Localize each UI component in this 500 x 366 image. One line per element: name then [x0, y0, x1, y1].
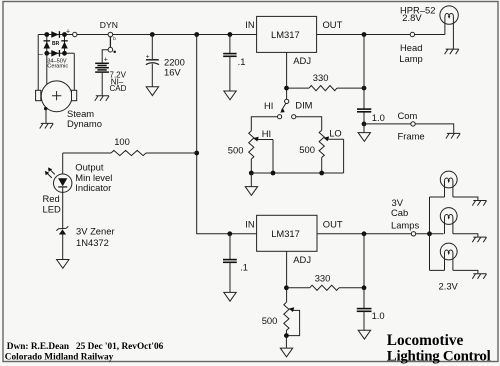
capacitor C4 .1 lead (lower) [229, 234, 231, 259]
wire: DS3 right lead [453, 234, 478, 237]
label e (lower pole) [114, 51, 116, 53]
LED D1 circle [54, 174, 72, 192]
ground: signal ground below C5 [358, 330, 370, 339]
svg-text:+: + [104, 57, 108, 64]
svg-text:Locomotive: Locomotive [387, 332, 464, 349]
svg-text:Colorado Midland Railway: Colorado Midland Railway [5, 353, 114, 363]
wire: feed down to lower LM317 IN [197, 35, 257, 234]
svg-text:DIM: DIM [295, 100, 312, 111]
terminal: head lamp feed [410, 32, 414, 36]
node: rail junction at 2200 cap [150, 32, 155, 37]
wire: DYN lower pole to battery [102, 50, 108, 63]
potentiometer R6 500 (lower) [284, 302, 289, 330]
chassis ground under dynamo [40, 123, 54, 128]
wire: bridge left column [46, 35, 48, 54]
bridge rectifier BR diode right (points up) [61, 40, 68, 48]
wire: U2 OUT rail to cab lamps [317, 233, 444, 235]
svg-text:HI: HI [262, 128, 271, 139]
svg-text:3V Zener: 3V Zener [76, 225, 115, 236]
lamp DS2 cab lamp top [440, 171, 457, 188]
node: dynamo case ground tap [44, 107, 47, 110]
wire: cab lamp bus vertical [429, 197, 431, 270]
svg-text:Dwn: R.E.Dean 25 Dec '01, Re: Dwn: R.E.Dean 25 Dec '01, RevOct'06 [7, 342, 164, 352]
wire: R6 bottom [285, 331, 287, 348]
lamp DS1 filament and leads [445, 13, 454, 48]
wire: bridge right column [64, 35, 66, 54]
wire C2 to ground [229, 57, 231, 91]
chassis ground for head lamp [445, 49, 459, 54]
chassis ground DS2 [472, 201, 486, 206]
svg-text:b: b [113, 36, 116, 41]
svg-text:Output: Output [75, 161, 104, 172]
svg-text:DYN: DYN [100, 20, 118, 30]
node: ADJ junction lower [284, 285, 289, 290]
LED emission arrows [47, 170, 55, 178]
bridge rectifier BR diode left (points up) [44, 40, 51, 48]
svg-text:1N4372: 1N4372 [76, 237, 109, 248]
wire C1 to ground [151, 64, 153, 87]
zener D2 3V 1N4372 [59, 229, 66, 234]
ground: signal ground below R6 [280, 348, 292, 357]
node: ADJ junction top [284, 86, 289, 91]
R6 wiper [286, 310, 299, 335]
node: common junction below C3 [362, 122, 367, 127]
svg-text:330: 330 [313, 72, 329, 83]
svg-text:IN: IN [245, 218, 254, 229]
svg-text:500: 500 [228, 145, 244, 156]
svg-text:LO: LO [329, 128, 342, 139]
chassis ground DS3 [472, 237, 486, 242]
wire: DS4 leads [430, 270, 478, 273]
wire: LED to zener [62, 192, 64, 229]
capacitor C1 2200uF lead [151, 35, 153, 60]
svg-text:.1: .1 [240, 261, 248, 272]
wire: battery to ground [101, 73, 103, 96]
svg-text:+: + [146, 54, 150, 61]
switch S1 throw DIM [292, 115, 296, 119]
switch DYN: link between poles [109, 37, 111, 48]
svg-text:Com: Com [398, 110, 418, 121]
node: OUT junction top [362, 32, 367, 37]
wire: bridge to right brush [73, 53, 75, 90]
steam dynamo body circle [41, 81, 72, 112]
svg-text:Lighting Control: Lighting Control [387, 348, 491, 364]
wire: DIM throw to LO pot [296, 117, 322, 131]
dynamo + mark [52, 91, 61, 100]
capacitor C4 plates [223, 260, 237, 263]
svg-text:2.8V: 2.8V [402, 12, 422, 23]
lamp DS1 head lamp HPR-52 [440, 6, 458, 24]
wire: 100 down to LED [62, 153, 64, 174]
svg-text:1.0: 1.0 [372, 112, 385, 123]
dynamo left brush [36, 90, 41, 100]
switch DYN lower pole [108, 47, 113, 52]
capacitor C5 1.0 (lower) [363, 288, 365, 308]
ground: signal ground below C3 [358, 133, 370, 142]
wire: R3 bottom to rail [321, 158, 323, 174]
lamp DS3 cab lamp middle [440, 208, 457, 225]
capacitor C3 1.0 plates (top) [357, 109, 371, 112]
svg-text:.1: .1 [238, 56, 246, 67]
svg-text:16V: 16V [164, 67, 181, 78]
potentiometer R2 HI 500 [249, 131, 254, 159]
lamp DS4 cab lamp bottom [440, 243, 457, 260]
switch S1 lever with arrow [281, 103, 286, 110]
wire: R2 bottom to rail [250, 159, 252, 173]
terminal: Com Frame [411, 122, 415, 126]
svg-text:2.3V: 2.3V [439, 281, 459, 292]
wire: pot bottom rail [251, 172, 343, 174]
svg-text:HI: HI [264, 100, 273, 111]
svg-text:Red: Red [43, 193, 60, 204]
node: cab lamp bus junction [427, 231, 432, 236]
svg-text:500: 500 [262, 315, 278, 326]
svg-text:Indicator: Indicator [75, 182, 111, 193]
svg-text:500: 500 [299, 144, 315, 155]
chassis ground DS4 [472, 274, 486, 279]
svg-text:Head: Head [400, 42, 422, 53]
capacitor C2 plates [223, 54, 236, 57]
wire: minus lead down to dynamo case [46, 53, 48, 84]
svg-text:Cab: Cab [391, 207, 408, 218]
LED D1 diode [58, 178, 67, 186]
wire: dynamo case to ground [45, 109, 47, 124]
wire: OUT junction down to 330 and 1.0 [363, 234, 365, 288]
regulator U2 LM317 box (lower) [257, 215, 317, 251]
terminal: bridge + output [73, 32, 77, 36]
node: 330/1.0 junction lower [362, 285, 367, 290]
svg-text:100: 100 [114, 136, 130, 147]
node: 330/1.0 junction top right [362, 86, 367, 91]
ground: signal ground below pots [245, 187, 257, 196]
wire: rail to ground [250, 173, 252, 186]
bridge rectifier BR diode top (points right) [51, 31, 60, 38]
svg-text:Steam: Steam [67, 108, 94, 119]
wire: U1 OUT rail to head lamp [317, 34, 445, 36]
chassis ground: loco frame [446, 133, 460, 138]
wire C3 to common junction [363, 112, 365, 124]
svg-text:–: – [38, 50, 43, 59]
svg-text:Frame: Frame [398, 131, 425, 142]
node: junction at 100 resistor right [194, 151, 199, 156]
svg-text:3V: 3V [392, 197, 404, 208]
wire: U2 ADJ down to 500 pot [286, 251, 288, 302]
svg-text:OUT: OUT [323, 218, 343, 229]
resistor R5 330 (lower) [286, 287, 364, 289]
svg-text:ADJ: ADJ [293, 254, 311, 265]
capacitor C1 plates (polarized) [146, 59, 159, 61]
svg-text:Lamp: Lamp [399, 53, 422, 64]
node: R6 bottom junction [284, 333, 289, 338]
battery B1 7.2V NI-CAD plates [95, 63, 109, 72]
regulator U1 LM317 box [257, 16, 317, 52]
node: rail junction to lower regulator feed [194, 32, 199, 37]
wire: R2 wiper down to rail [272, 140, 274, 174]
svg-text:ADJ: ADJ [293, 55, 311, 66]
R3 wiper [327, 138, 343, 140]
node: rail junction at .1 cap [228, 32, 233, 37]
svg-text:LM317: LM317 [271, 29, 300, 40]
R2 wiper [257, 139, 273, 141]
wire: HI throw to HI pot [251, 117, 277, 131]
resistor R1 330 (top) [287, 87, 365, 89]
terminal: cab lamp feed [411, 232, 415, 236]
node: bridge corner junction dots [44, 32, 67, 56]
wire: common to frame terminal [364, 124, 454, 133]
potentiometer R3 LO 500 [319, 130, 324, 157]
ground: signal ground below zener [57, 260, 69, 269]
dynamo right brush [72, 90, 77, 100]
wire: zener to ground [62, 235, 64, 260]
switch S1 throw HI [278, 115, 282, 119]
svg-text:LM317: LM317 [271, 228, 300, 239]
node: rail junctions [249, 171, 324, 176]
wire: bridge to left brush [37, 35, 39, 91]
svg-text:LED: LED [43, 204, 61, 215]
svg-text:1.0: 1.0 [372, 310, 385, 321]
wire: OUT junction down to 330 and 1.0 cap [363, 35, 365, 109]
wire: U1 ADJ down to switch [286, 52, 288, 99]
switch DYN upper pole [108, 32, 113, 37]
wire: DS2 leads [430, 197, 478, 200]
svg-text:Ceramic: Ceramic [47, 63, 68, 69]
svg-text:BR: BR [52, 41, 60, 47]
wire C4 to ground [229, 263, 231, 292]
svg-text:CAD: CAD [110, 84, 127, 93]
ground: signal ground below C4 [224, 292, 236, 301]
svg-text:Dynamo: Dynamo [67, 118, 102, 129]
bridge rectifier BR diode bottom (points right) [51, 50, 60, 57]
ground: signal ground under C2 [224, 91, 236, 100]
wire: common junction to ground [363, 124, 365, 132]
svg-text:+: + [66, 29, 70, 36]
svg-text:330: 330 [315, 272, 331, 283]
wire: R3 wiper down to rail [343, 139, 345, 173]
chassis ground under battery [95, 96, 109, 101]
svg-text:IN: IN [245, 19, 254, 30]
wire: main top rail from bridge output to LM317 IN [38, 34, 256, 36]
ground: signal ground under C1 [146, 87, 158, 96]
switch S1 HI/DIM: pole [285, 99, 289, 103]
resistor R4 100 [63, 152, 197, 154]
node: OUT junction lower [362, 231, 367, 236]
svg-text:OUT: OUT [323, 19, 343, 30]
svg-text:Lamps: Lamps [391, 220, 419, 231]
capacitor C2 .1 lead [229, 35, 231, 54]
wire: bridge bottom row [47, 52, 75, 54]
node: lower IN junction at .1 cap [227, 231, 232, 236]
